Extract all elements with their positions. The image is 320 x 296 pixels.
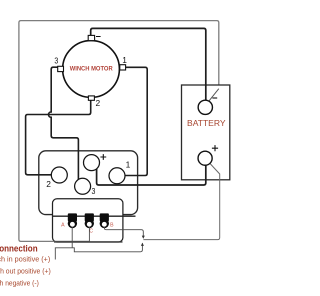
battery body (182, 85, 230, 180)
wire: motor terminal 1 to solenoid circle 1 (125, 67, 147, 175)
svg-text:Connection: Connection (0, 244, 38, 254)
winch motor M1 circle (63, 41, 120, 98)
svg-text:3: 3 (54, 55, 58, 65)
svg-text:2: 2 (95, 98, 100, 108)
solenoid circle 1 (109, 168, 125, 184)
solenoid plus label (100, 154, 106, 160)
motor terminal bottom (2) (88, 96, 94, 100)
solenoid block body U1 (39, 151, 138, 215)
wire: motor negative to battery negative (91, 28, 206, 100)
arrow up at junction (141, 243, 144, 246)
leader: stud C down (88, 227, 90, 242)
motor minus label (96, 36, 101, 38)
svg-text:2: 2 (46, 179, 51, 189)
terminal strip bottom reinforcement (54, 241, 123, 243)
svg-text:Winch out positive (+): Winch out positive (+) (0, 269, 51, 276)
svg-text:A: A (61, 222, 65, 228)
wire: thin loop battery negative to stud C (big outer loop) (19, 21, 219, 242)
stud B (100, 213, 109, 228)
wire: motor terminal 3 to solenoid circle 3 (with hop over wire 2) (49, 67, 79, 179)
wire: solenoid plus to battery plus (97, 165, 206, 185)
wire: stud bus bar (53, 215, 136, 217)
svg-text:3: 3 (92, 186, 96, 196)
battery negative lead diagonal (209, 89, 219, 102)
stud A (68, 213, 77, 228)
wire: loop segment over terminal strip (53, 240, 89, 242)
solenoid circle 3 (75, 178, 91, 194)
solenoid terminal strip inner box (53, 199, 123, 242)
wire: battery plus thin lead down to junction (143, 163, 219, 239)
motor terminal top (negative) (88, 35, 94, 40)
solenoid circle 2 (51, 167, 67, 183)
battery plus label (212, 145, 218, 151)
svg-text:1: 1 (126, 160, 131, 170)
arrow down at junction (142, 236, 145, 239)
leader: stud B to junction (104, 227, 143, 237)
leader: A corner to legend and jog to junction (55, 243, 142, 259)
wire: motor terminal 2 to solenoid circle 2 (26, 100, 91, 175)
motor terminal right (1) (120, 65, 126, 70)
svg-text:Winch negative (-): Winch negative (-) (0, 281, 39, 288)
stud C (85, 213, 94, 228)
solenoid circle plus (84, 155, 100, 171)
svg-text:BATTERY: BATTERY (187, 119, 226, 128)
svg-text:Winch in positive (+): Winch in positive (+) (0, 256, 50, 263)
leader: stud A down (71, 227, 73, 248)
motor terminal left (3) (58, 66, 64, 71)
battery minus label (212, 97, 217, 99)
svg-text:1: 1 (122, 55, 127, 65)
svg-text:WINCH MOTOR: WINCH MOTOR (70, 66, 113, 73)
battery terminal circle negative (198, 100, 212, 114)
battery terminal circle positive (198, 151, 212, 165)
svg-text:B: B (110, 222, 114, 228)
